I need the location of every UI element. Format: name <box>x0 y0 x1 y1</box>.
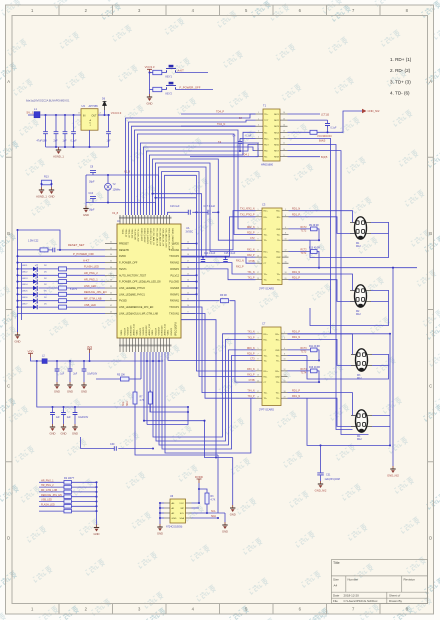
net label HR_PNG_1 <box>84 277 98 281</box>
wire cap C2 lower stem <box>55 134 57 147</box>
svg-text:X2_9: X2_9 <box>124 170 131 174</box>
svg-text:TD-: TD- <box>276 398 280 400</box>
wire bottom pin 147 route <box>146 352 148 425</box>
svg-text:TCT2: TCT2 <box>301 253 307 255</box>
net label REDUCE_JPG_EN <box>84 290 107 294</box>
svg-text:GND: GND <box>72 431 78 435</box>
wire C15 stem <box>225 257 227 259</box>
svg-text:TX4_N: TX4_N <box>247 391 254 393</box>
svg-text:COL_AD0_IO_XXX: COL_AD0_IO_XXX <box>165 229 168 249</box>
junction C4 <box>239 150 241 152</box>
svg-text:TD-: TD- <box>277 280 281 282</box>
svg-text:AGND_1: AGND_1 <box>53 154 64 158</box>
wire bankA cap 10uF/16V lower <box>83 371 85 382</box>
wire M4 loop <box>307 334 390 446</box>
wire RP row 3 <box>39 491 97 493</box>
push button KEY1 <box>166 65 177 79</box>
resistor RP row 7 <box>64 509 71 513</box>
svg-text:4: 4 <box>258 131 259 133</box>
svg-text:TXD2_A: TXD2_A <box>124 229 127 238</box>
wire C6 lower stem <box>108 134 110 147</box>
svg-text:TD-: TD- <box>264 240 268 242</box>
resistor R15 key2 <box>153 87 162 91</box>
wire regulator output <box>98 114 110 116</box>
svg-text:RD-: RD- <box>264 257 268 259</box>
resistor R LED row 1 <box>59 267 67 271</box>
wire SCL out <box>207 512 225 514</box>
svg-text:GND2X: GND2X <box>140 327 142 335</box>
circular connector M4 <box>351 410 372 441</box>
junction rail A <box>36 360 160 362</box>
svg-text:11: 11 <box>257 250 259 252</box>
wire R3 bottom <box>192 504 208 513</box>
svg-text:GND: GND <box>222 529 228 533</box>
svg-text:4: 4 <box>285 215 286 217</box>
svg-text:TD-: TD- <box>277 263 281 265</box>
wire bankB cap 1uF lower <box>52 415 54 424</box>
label R5 10K <box>117 373 125 376</box>
wire to R key2 <box>150 89 153 91</box>
wire bankB cap 2uF lower <box>63 415 65 424</box>
wire WP row <box>192 507 200 509</box>
svg-text:5V_1: 5V_1 <box>27 111 34 115</box>
wire LED row 1 mid <box>39 268 59 270</box>
wire bottom of LED group <box>18 312 106 314</box>
label RP 10K*7 <box>64 477 75 480</box>
svg-text:A4: A4 <box>334 584 338 588</box>
svg-text:RXINP2: RXINP2 <box>170 268 179 271</box>
svg-text:2. RD- (2): 2. RD- (2) <box>390 68 411 73</box>
wire bundle A2 <box>144 147 256 215</box>
svg-text:VDD1: VDD1 <box>137 329 139 336</box>
wire bundle A3 <box>147 145 256 216</box>
wire LED row 3 mid <box>39 281 59 283</box>
svg-text:OUT: OUT <box>91 115 97 118</box>
wire T1 pin3 net <box>181 125 256 127</box>
wire U6 right gnd <box>224 513 226 522</box>
C3 left net 8 <box>249 261 255 263</box>
wire C7 row5 right <box>288 359 320 361</box>
svg-text:GND: GND <box>230 512 236 516</box>
wire T1 row5 left <box>240 137 256 139</box>
value T1 cap <box>331 128 337 130</box>
wire SDA row <box>192 517 219 519</box>
wire LED row 1 to IC <box>67 268 106 270</box>
wire LED row 6 mid <box>39 300 59 302</box>
resistor R LED row 7 <box>59 305 67 309</box>
svg-text:KEY1: KEY1 <box>166 76 173 79</box>
svg-text:20: 20 <box>285 278 287 280</box>
net label SDA <box>211 515 216 518</box>
net label XTAL2 <box>112 211 119 215</box>
resistor R14 key1 <box>153 70 162 74</box>
ground GND_NI2 cap <box>315 481 327 492</box>
ground bankA 10uF/16V <box>81 382 87 393</box>
value bankA 10uF/16V <box>87 374 97 376</box>
resistor R LED row 6 <box>59 299 67 303</box>
power port VDD <box>28 349 34 357</box>
wire LED row 4 to IC <box>67 287 106 289</box>
svg-text:CND_NI2: CND_NI2 <box>368 109 380 113</box>
svg-text:AGND_X12: AGND_X12 <box>133 323 136 335</box>
svg-text:2*PT-SCARD: 2*PT-SCARD <box>259 288 274 291</box>
net label VCC3DCON <box>317 134 332 138</box>
label R6 0R <box>220 294 227 297</box>
wire bundle B4 <box>135 130 256 229</box>
U1 right pin stubs <box>181 244 195 320</box>
resistor R16 49.9R <box>311 369 318 373</box>
C3 left net 2 <box>247 215 254 217</box>
net label SCL vertical <box>123 401 125 406</box>
wire C4 stem top <box>239 138 241 141</box>
wire M1 right pad link <box>371 232 389 234</box>
svg-text:R6 0R: R6 0R <box>220 294 227 297</box>
wire nested U4 <box>162 352 256 449</box>
wire C16 net right <box>212 211 218 213</box>
svg-text:MX7: MX7 <box>274 151 279 153</box>
wire M1 loop top <box>289 239 311 241</box>
wire T1 pin1 net <box>181 113 256 115</box>
svg-text:RXINP1: RXINP1 <box>170 293 179 296</box>
svg-text:C: C <box>429 383 432 388</box>
svg-text:RX_CLK_AD3_IO: RX_CLK_AD3_IO <box>155 229 158 247</box>
svg-text:35: 35 <box>110 261 112 263</box>
ground AGND_1 tie <box>36 187 47 198</box>
svg-text:5: 5 <box>258 137 259 139</box>
net label row 49.9 m4b <box>301 373 307 375</box>
ground GND keys <box>147 94 153 105</box>
wire RP row 4 <box>39 496 97 498</box>
label C9 <box>89 166 95 184</box>
svg-text:USB_LED: USB_LED <box>84 303 96 307</box>
svg-text:RXD1_LED0XX: RXD1_LED0XX <box>146 229 148 245</box>
C3 left net 6 <box>247 249 255 251</box>
U1 left pin numbers <box>110 242 112 314</box>
resistor RP row 2 <box>64 485 71 489</box>
svg-text:C:\Users\IP101G.SchDoc: C:\Users\IP101G.SchDoc <box>344 599 379 603</box>
svg-text:2: 2 <box>284 332 285 334</box>
svg-text:12: 12 <box>284 369 286 371</box>
label C17 0.1uF <box>204 205 216 208</box>
wire RXINN2 to C3 <box>181 263 256 274</box>
wire T1 pin8 net <box>190 156 256 158</box>
svg-text:M12: M12 <box>356 313 361 316</box>
svg-text:PRESET: PRESET <box>119 243 129 246</box>
wire crystal ground stem <box>85 203 87 206</box>
svg-text:MF_GTM_LNB: MF_GTM_LNB <box>41 489 57 492</box>
label C10 <box>89 192 95 211</box>
U6 left pin stubs <box>164 503 170 518</box>
svg-text:DVDD: DVDD <box>119 255 126 258</box>
svg-text:MDC_MDIO_XX_XXX: MDC_MDIO_XX_XXX <box>168 229 170 251</box>
connector C7 <box>259 322 281 412</box>
wire cap C1 lower stem <box>45 134 47 147</box>
net label row5 right <box>319 139 326 143</box>
svg-text:2: 2 <box>285 209 286 211</box>
svg-text:1uF: 1uF <box>63 140 68 143</box>
wire C3 to M2 a <box>289 274 355 290</box>
resistor R8 4.7K <box>148 392 152 404</box>
svg-text:7: 7 <box>258 354 259 356</box>
svg-text:GND: GND <box>15 339 21 343</box>
net label row 49.9 m3b <box>301 352 307 354</box>
T1 left pin stubs <box>256 114 264 157</box>
junction AVDD <box>195 242 197 244</box>
wire DVDD to R3 <box>199 489 207 493</box>
U1 left pin stubs <box>105 244 117 314</box>
net label HR_PNG_1 <box>41 479 54 482</box>
wire LED row 7 to IC <box>67 306 106 308</box>
svg-text:GND2X: GND2X <box>155 327 157 335</box>
wire bundle B2 <box>129 120 256 215</box>
svg-text:SCL: SCL <box>123 401 125 406</box>
svg-text:1uF: 1uF <box>56 417 61 419</box>
wire R5 to pin <box>129 378 141 380</box>
label LED3 <box>22 278 47 280</box>
resistor R6 0R <box>221 299 229 303</box>
wire U6 left row 518 <box>160 517 164 519</box>
svg-text:MDIO_VDDIO_X_XX: MDIO_VDDIO_X_XX <box>171 229 173 250</box>
wire C30 right <box>118 448 153 450</box>
capacitor C17 <box>208 210 210 215</box>
svg-text:LINK_LED&ME_PHY21: LINK_LED&ME_PHY21 <box>119 293 146 296</box>
wire bundle C2 <box>165 175 197 215</box>
svg-text:12: 12 <box>283 137 285 139</box>
capacitor bankA 2uF <box>68 369 73 371</box>
svg-text:2uF: 2uF <box>54 140 59 143</box>
wire LED row 5 left <box>18 293 34 295</box>
svg-text:AGND_X12: AGND_X12 <box>164 323 167 335</box>
net label FLASH_LED <box>41 503 55 506</box>
svg-text:DVDD12X: DVDD12X <box>162 325 164 336</box>
svg-text:11: 11 <box>283 143 285 145</box>
svg-text:GND_NI2: GND_NI2 <box>315 488 327 492</box>
svg-text:LINK_LED: LINK_LED <box>84 284 96 288</box>
wire 3V3 stem <box>89 353 91 361</box>
U1 right pin numbers <box>187 242 189 314</box>
wire staircase RXINN1 a <box>181 300 220 302</box>
svg-text:VDD1: VDD1 <box>121 329 123 336</box>
svg-text:R9 49.9R: R9 49.9R <box>309 225 319 227</box>
wire left bus <box>17 230 19 332</box>
C3 right pin stubs <box>282 211 289 280</box>
resistor RP row 1 <box>64 481 71 485</box>
svg-text:Date: Date <box>333 594 340 598</box>
svg-text:RXINN1: RXINN1 <box>170 300 180 303</box>
svg-text:TX2_N: TX2_N <box>247 209 254 211</box>
wire bankA cap 1uF lower <box>56 371 58 382</box>
wire cap row2 stem <box>327 120 329 123</box>
wire C16 net mid <box>192 211 208 213</box>
resistor RP row 4 <box>64 495 71 499</box>
wire shield cap stem <box>320 445 322 472</box>
svg-text:SDA: SDA <box>211 515 216 518</box>
wire R7 bottom <box>135 404 218 455</box>
wire row 240 extension <box>310 239 319 241</box>
value C6 1uF <box>107 140 112 143</box>
label R7 R8 4.7K <box>140 397 145 403</box>
value bankA 2uF <box>73 374 78 376</box>
svg-text:Size: Size <box>333 578 339 582</box>
net label row 49.9 m2 <box>301 249 308 251</box>
svg-text:VDD1: VDD1 <box>152 329 154 336</box>
svg-text:1: 1 <box>258 112 259 114</box>
wire LED row 4 mid <box>39 287 59 289</box>
svg-text:MX8: MX8 <box>274 157 279 159</box>
svg-text:5: 5 <box>258 227 259 229</box>
junction R9 out <box>318 239 320 241</box>
svg-text:VDD: VDD <box>28 349 34 353</box>
svg-text:LED4: LED4 <box>22 284 28 286</box>
svg-text:C31: C31 <box>326 474 331 477</box>
wire RP row 5 <box>39 501 97 503</box>
junction R3 SCL <box>206 512 208 514</box>
svg-text:GND: GND <box>54 389 60 393</box>
wire C10 stem <box>92 199 94 203</box>
net label RD1_N <box>242 152 250 156</box>
svg-text:LED2: LED2 <box>22 272 28 274</box>
svg-text:14: 14 <box>284 375 286 377</box>
svg-text:R13: R13 <box>44 176 49 179</box>
svg-text:PLLV12: PLLV12 <box>171 274 180 277</box>
svg-text:TD-: TD- <box>276 382 280 384</box>
wire bankA cap 1uF stem <box>56 361 58 369</box>
svg-text:AT24C02(SO8): AT24C02(SO8) <box>166 526 183 529</box>
resistor R4 reset <box>40 248 48 252</box>
wire VDD rail A <box>31 358 43 362</box>
junction pin row 13 <box>195 293 217 458</box>
C3 left net 9 <box>247 272 254 274</box>
svg-text:TD+: TD+ <box>264 114 269 116</box>
ground bankB 10uF/16V <box>72 424 78 435</box>
ground bankA 2uF <box>67 382 73 393</box>
wire T1 right row4 <box>288 131 311 133</box>
svg-text:M12: M12 <box>357 438 362 441</box>
svg-text:4.7K: 4.7K <box>140 400 145 402</box>
svg-text:WP: WP <box>180 508 184 510</box>
svg-text:47uF/16V: 47uF/16V <box>37 140 48 143</box>
ground GND mid <box>230 505 236 516</box>
svg-text:TX2_P: TX2_P <box>247 215 254 217</box>
net label FLASH_LED <box>84 265 99 269</box>
svg-text:AUTO_FACTORY_TEST: AUTO_FACTORY_TEST <box>119 274 147 277</box>
svg-text:RESETB: RESETB <box>119 249 129 252</box>
resistor R9 49.9R <box>311 227 318 231</box>
junction dots input rail <box>44 114 74 116</box>
svg-text:AP7365: AP7365 <box>89 104 99 108</box>
wire bankB cap 2uF stem <box>63 407 65 412</box>
svg-text:RD-: RD- <box>277 217 281 219</box>
capacitor C5 <box>71 132 76 134</box>
svg-text:TXD3: TXD3 <box>121 229 123 235</box>
junction dots left bus <box>16 255 18 308</box>
junction DVDD <box>198 488 200 504</box>
wire bankA cap 10uF/16V stem <box>83 361 85 369</box>
wire shield cap lower <box>320 475 322 481</box>
crystal Y2 12MHz <box>105 183 122 192</box>
svg-text:Revision: Revision <box>404 578 416 582</box>
svg-text:RX_ER_AD2_IOX: RX_ER_AD2_IOX <box>158 229 161 247</box>
net label USB_LED <box>84 303 96 307</box>
svg-text:14: 14 <box>285 255 287 257</box>
junction rail B <box>51 406 189 408</box>
wire bottom pin 144 route <box>144 352 205 421</box>
net label CND_NI2 arrow <box>362 109 380 113</box>
svg-text:RXINN2: RXINN2 <box>170 262 180 265</box>
svg-text:MX3: MX3 <box>274 126 279 128</box>
svg-text:TCT4: TCT4 <box>301 373 307 375</box>
svg-text:GND2X: GND2X <box>171 327 173 335</box>
capacitor C15 <box>223 260 228 262</box>
svg-text:VSS3XX: VSS3XX <box>143 326 145 335</box>
wire M3 resistor row <box>288 349 311 351</box>
wire tie left <box>41 185 43 187</box>
svg-text:RX2_N: RX2_N <box>247 249 255 251</box>
wire C6 stem <box>108 115 110 132</box>
svg-text:TD-: TD- <box>264 126 268 128</box>
svg-text:RXD2_LED1X: RXD2_LED1X <box>143 229 145 244</box>
wire bottom rail of power circuit <box>46 146 109 148</box>
svg-text:6: 6 <box>284 348 285 350</box>
C3 left net 7 <box>247 255 255 257</box>
wire R to KEY1 <box>162 72 167 74</box>
svg-text:16: 16 <box>283 112 285 114</box>
wire C3 to M2 b <box>289 280 355 302</box>
label U4 3V3SC <box>186 227 194 234</box>
svg-text:P_POWER_OFF: P_POWER_OFF <box>119 262 138 265</box>
svg-text:1. RD+ (1): 1. RD+ (1) <box>390 57 412 62</box>
wire crystal bottom <box>86 203 156 216</box>
svg-text:NC: NC <box>264 132 268 134</box>
resistor R11 49.9R <box>311 348 318 352</box>
svg-text:GND: GND <box>81 389 87 393</box>
svg-text:13: 13 <box>257 375 259 377</box>
svg-text:42: 42 <box>110 305 112 307</box>
wire PLLGND stub <box>181 281 197 283</box>
wire LED row 3 left <box>18 281 34 283</box>
svg-text:RD1_N: RD1_N <box>292 271 300 274</box>
svg-text:B(4)5: B(4)5 <box>319 139 326 143</box>
svg-text:RX2_N: RX2_N <box>236 259 244 262</box>
svg-text:RCT3: RCT3 <box>301 348 308 350</box>
resistor R LED row 4 <box>59 286 67 290</box>
wire RX row with caps <box>181 257 256 263</box>
circular connector M3 <box>351 349 372 380</box>
svg-text:RD-: RD- <box>264 339 268 341</box>
wire crystal left leg <box>85 175 87 203</box>
svg-text:13: 13 <box>283 131 285 133</box>
C7 pin numbers <box>257 332 286 398</box>
wire C14 stem <box>202 257 204 259</box>
svg-text:RD-: RD- <box>264 377 268 379</box>
svg-text:REDUCE_JPG_EN: REDUCE_JPG_EN <box>84 290 107 294</box>
svg-text:GND: GND <box>172 518 177 520</box>
svg-text:30pF: 30pF <box>89 181 95 184</box>
wire LED row 3 to IC <box>67 281 106 283</box>
wire C9 stem <box>92 173 94 175</box>
svg-text:LINK_LED&REDUCE_2PC_EN: LINK_LED&REDUCE_2PC_EN <box>119 306 154 309</box>
wire bankB cap 1uF stem <box>52 407 54 412</box>
wire LED row 5 mid <box>39 293 59 295</box>
wire bundle B1 <box>126 114 256 215</box>
wire C7 to M4 a <box>288 393 356 416</box>
power port 3V3 rail <box>87 345 92 353</box>
svg-text:TD4_P: TD4_P <box>216 110 224 114</box>
net label RX2_N <box>236 259 244 262</box>
net label VCC3.3 output <box>111 111 122 115</box>
LED D2 <box>33 271 38 278</box>
svg-text:MX6: MX6 <box>274 145 279 147</box>
